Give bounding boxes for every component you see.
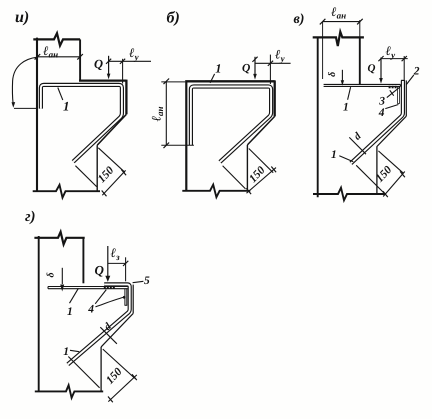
- svg-text:2: 2: [413, 65, 420, 77]
- svg-text:1: 1: [331, 149, 337, 161]
- svg-text:в): в): [294, 12, 305, 27]
- svg-text:г): г): [25, 209, 36, 225]
- svg-text:4: 4: [87, 303, 94, 315]
- svg-text:1: 1: [215, 61, 221, 75]
- svg-text:1: 1: [63, 99, 70, 114]
- svg-text:1: 1: [343, 102, 349, 114]
- svg-text:Q: Q: [94, 57, 103, 71]
- svg-text:и): и): [15, 9, 29, 26]
- svg-text:δ: δ: [45, 272, 56, 277]
- svg-text:5: 5: [144, 275, 150, 287]
- svg-text:Q: Q: [95, 263, 105, 278]
- svg-text:1: 1: [67, 306, 73, 318]
- svg-text:1: 1: [63, 346, 69, 358]
- svg-text:δ: δ: [327, 72, 338, 77]
- svg-text:4: 4: [378, 107, 385, 119]
- svg-text:Q: Q: [368, 63, 376, 75]
- svg-text:б): б): [167, 10, 180, 27]
- svg-text:3: 3: [378, 95, 385, 107]
- svg-text:Q: Q: [242, 63, 250, 75]
